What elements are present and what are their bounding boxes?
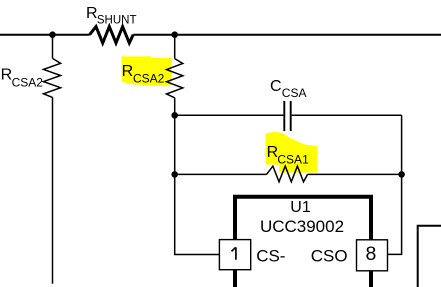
svg-text:U1: U1 <box>290 199 311 216</box>
wire middle branch upper <box>174 35 176 59</box>
svg-text:SHUNT: SHUNT <box>97 15 137 27</box>
node junction dot middle at RCSA1 wire <box>171 171 178 178</box>
wire top rail <box>0 34 441 36</box>
wire capacitor loop top <box>175 115 402 174</box>
resistor R_CSA2 left <box>44 58 61 97</box>
resistor R_SHUNT <box>90 27 134 43</box>
resistor R_CSA2 middle <box>167 59 183 98</box>
wire RCSA1 row right <box>308 173 402 175</box>
node junction dot middle at capacitor wire <box>171 112 178 119</box>
svg-text:CSA1: CSA1 <box>277 153 309 167</box>
wire left branch upper <box>52 35 54 59</box>
box right partial component <box>418 226 441 287</box>
svg-text:CS-: CS- <box>256 246 285 265</box>
svg-text:CSA: CSA <box>282 86 307 100</box>
wire down to pin 8 <box>388 174 402 254</box>
highlight blob over RCSA2 label <box>122 56 172 86</box>
pin 8 box <box>357 240 388 271</box>
svg-text:R: R <box>1 67 13 84</box>
svg-text:C: C <box>270 78 282 95</box>
svg-text:CSO: CSO <box>311 246 348 265</box>
highlight blob over RCSA1 label <box>266 132 317 173</box>
svg-text:UCC39002: UCC39002 <box>260 217 344 236</box>
svg-text:8: 8 <box>365 243 376 265</box>
node junction dot left <box>49 31 56 38</box>
op-amp U1 body outline <box>235 197 371 287</box>
pin 1 number <box>232 247 236 259</box>
svg-text:CSA2: CSA2 <box>133 72 165 86</box>
pin 1 box <box>219 240 250 270</box>
wire RCSA1 row left <box>175 173 267 175</box>
resistor R_CSA1 <box>267 166 308 182</box>
svg-text:CSA2: CSA2 <box>12 75 44 89</box>
svg-text:R: R <box>86 5 98 22</box>
node junction dot right <box>398 171 405 178</box>
wire middle branch lower to pin 1 <box>175 98 220 255</box>
wire left branch lower <box>52 97 54 283</box>
capacitor C_CSA plates <box>284 101 290 131</box>
node junction dot middle top <box>171 31 178 38</box>
svg-text:R: R <box>122 63 134 80</box>
